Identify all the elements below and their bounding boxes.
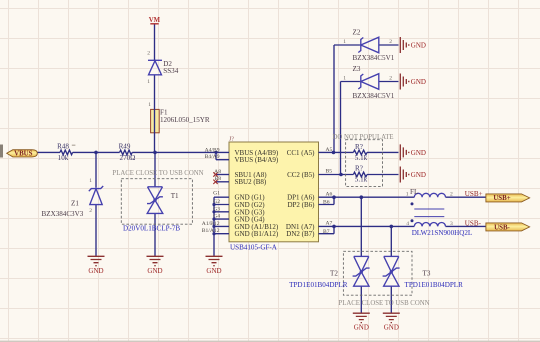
svg-text:4: 4	[406, 221, 409, 227]
svg-text:FL: FL	[410, 188, 418, 196]
svg-text:5.1k: 5.1k	[355, 176, 368, 184]
svg-text:A6: A6	[326, 192, 333, 198]
svg-text:T1: T1	[171, 192, 179, 200]
svg-text:R48: R48	[57, 143, 69, 151]
svg-text:270Ω: 270Ω	[120, 154, 136, 162]
svg-text:GND: GND	[411, 41, 426, 49]
svg-text:USB+: USB+	[465, 190, 483, 198]
svg-text:2: 2	[450, 192, 453, 198]
svg-text:2: 2	[389, 75, 392, 81]
svg-text:USB-: USB-	[494, 224, 510, 231]
svg-text:T3: T3	[423, 270, 431, 278]
svg-text:USB+: USB+	[493, 195, 510, 202]
svg-text:A5: A5	[326, 147, 333, 153]
svg-text:VM: VM	[149, 17, 161, 24]
svg-text:1: 1	[343, 75, 346, 81]
svg-text:DN2 (B7): DN2 (B7)	[286, 230, 315, 238]
svg-text:B7: B7	[323, 229, 330, 235]
svg-text:BZX384C5V1: BZX384C5V1	[353, 92, 395, 100]
svg-text:5.1k: 5.1k	[355, 154, 368, 162]
svg-text:DP2 (B6): DP2 (B6)	[287, 201, 315, 209]
svg-text:B4/A9: B4/A9	[205, 154, 220, 160]
svg-text:USB4105-GF-A: USB4105-GF-A	[230, 244, 278, 252]
svg-text:3: 3	[450, 221, 453, 227]
svg-text:A4/B9: A4/B9	[205, 148, 220, 154]
svg-text:GND: GND	[147, 267, 162, 275]
svg-text:A7: A7	[326, 221, 333, 227]
svg-text:2: 2	[389, 39, 392, 45]
svg-text:GND: GND	[384, 323, 399, 331]
svg-text:GND: GND	[411, 149, 426, 157]
svg-text:BZX384C5V1: BZX384C5V1	[353, 54, 395, 62]
svg-text:Z2: Z2	[353, 29, 361, 37]
svg-text:Z1: Z1	[71, 200, 79, 208]
svg-text:GND: GND	[88, 267, 103, 275]
svg-text:GND: GND	[206, 267, 221, 275]
svg-text:BZX384C3V3: BZX384C3V3	[42, 210, 84, 218]
svg-text:GND: GND	[354, 323, 369, 331]
svg-text:G1: G1	[213, 190, 220, 196]
svg-text:B6: B6	[323, 200, 330, 206]
svg-text:D20V0L1BCLP-7B: D20V0L1BCLP-7B	[123, 224, 180, 232]
svg-text:1: 1	[147, 79, 150, 85]
svg-text:CC2 (B5): CC2 (B5)	[287, 171, 315, 179]
svg-text:1: 1	[89, 178, 92, 184]
svg-text:VBUS: VBUS	[14, 151, 33, 158]
svg-text:J?: J?	[229, 137, 234, 143]
svg-text:A1/B12: A1/B12	[202, 221, 220, 227]
svg-text:B1/A12: B1/A12	[202, 228, 220, 234]
svg-text:GND: GND	[411, 171, 426, 179]
svg-text:R?: R?	[355, 143, 363, 151]
svg-text:B5: B5	[326, 169, 333, 175]
svg-text:GND (B1/A12): GND (B1/A12)	[235, 230, 279, 238]
svg-text:Z3: Z3	[353, 65, 361, 73]
svg-text:USB-: USB-	[465, 219, 482, 227]
svg-text:PLACE CLOSE TO USB CONN: PLACE CLOSE TO USB CONN	[338, 300, 429, 307]
svg-text:A8: A8	[214, 169, 221, 175]
svg-text:10k: 10k	[58, 154, 69, 162]
svg-text:T2: T2	[330, 270, 338, 278]
svg-text:G3: G3	[213, 206, 220, 212]
svg-text:1: 1	[148, 102, 151, 108]
svg-text:TPD1E01B04DPLR: TPD1E01B04DPLR	[289, 281, 348, 289]
svg-text:1206L050_15YR: 1206L050_15YR	[160, 116, 210, 124]
svg-text:SS34: SS34	[163, 67, 178, 75]
svg-text:B8: B8	[214, 176, 221, 182]
svg-text:DLW21SN900HQ2L: DLW21SN900HQ2L	[412, 229, 473, 237]
svg-text:G2: G2	[213, 199, 220, 205]
svg-text:1: 1	[343, 39, 346, 45]
svg-text:G4: G4	[213, 214, 220, 220]
svg-text:DO NOT POPULATE: DO NOT POPULATE	[333, 134, 394, 141]
svg-text:R?: R?	[355, 165, 363, 173]
svg-text:2: 2	[147, 51, 150, 57]
svg-text:SBU2 (B8): SBU2 (B8)	[235, 178, 267, 186]
svg-text:1: 1	[406, 192, 409, 198]
svg-text:R49: R49	[119, 143, 131, 151]
svg-text:PLACE CLOSE TO USB CONN: PLACE CLOSE TO USB CONN	[112, 170, 203, 177]
svg-text:GND: GND	[411, 78, 426, 86]
svg-text:2: 2	[89, 208, 92, 214]
svg-text:CC1 (A5): CC1 (A5)	[287, 149, 315, 157]
svg-text:TPD1E01B04DPLR: TPD1E01B04DPLR	[405, 281, 464, 289]
svg-text:VBUS (B4/A9): VBUS (B4/A9)	[235, 156, 279, 164]
